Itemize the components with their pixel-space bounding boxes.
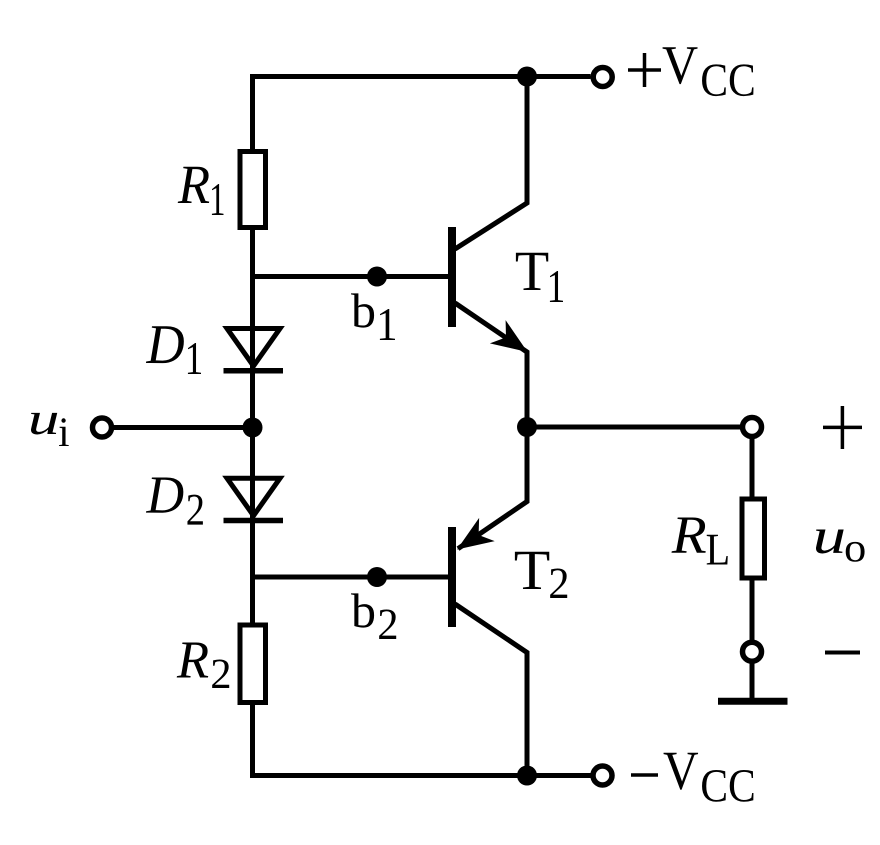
label ui i bbox=[59, 418, 69, 446]
wire: top rail +Vcc bbox=[250, 74, 591, 79]
label output minus sign bbox=[825, 651, 860, 655]
transistor T2 bbox=[448, 527, 456, 627]
label -Vcc V bbox=[664, 753, 698, 790]
label R2 R bbox=[177, 642, 209, 677]
resistor R2 bbox=[240, 625, 266, 703]
terminal: +Vcc bbox=[593, 68, 612, 87]
transistor T1 bbox=[448, 227, 456, 327]
node: b1 bbox=[367, 267, 387, 287]
label +Vcc CC bbox=[702, 64, 753, 96]
label T2 2 bbox=[550, 568, 567, 598]
label -Vcc CC bbox=[702, 770, 753, 802]
resistor R1 bbox=[240, 152, 266, 228]
terminal: output bottom bbox=[743, 642, 762, 661]
label T2 T bbox=[515, 552, 549, 589]
label D2 2 bbox=[187, 495, 202, 525]
label b1 1 bbox=[380, 309, 395, 340]
transistor T2 emitter arrow bbox=[449, 518, 494, 561]
label uo u bbox=[816, 530, 844, 554]
wire: output wire to terminal bbox=[527, 425, 740, 430]
label T1 1 bbox=[550, 271, 563, 302]
label uo o bbox=[846, 542, 865, 562]
wire: RL top lead bbox=[750, 439, 755, 499]
wire: T1 emitter bbox=[455, 303, 527, 427]
label RL L bbox=[707, 535, 728, 565]
wire: bottom rail -Vcc bbox=[250, 773, 591, 778]
diode D1 bbox=[224, 329, 284, 371]
terminal: output top bbox=[743, 418, 762, 437]
terminal: -Vcc bbox=[593, 766, 612, 785]
wire: T2 collector bbox=[455, 604, 527, 776]
wire: T2 emitter bbox=[458, 427, 527, 549]
label ui u bbox=[31, 413, 57, 435]
node: input junction bbox=[243, 418, 263, 438]
node: top rail junction bbox=[517, 67, 537, 87]
node: output junction bbox=[517, 417, 537, 437]
label RL R bbox=[671, 517, 705, 552]
terminal: input u_i bbox=[93, 418, 112, 437]
node: bottom rail junction bbox=[517, 766, 537, 786]
label R2 2 bbox=[212, 659, 229, 688]
label b2 2 bbox=[379, 609, 396, 639]
label D2 D bbox=[146, 477, 183, 512]
label R1 1 bbox=[212, 184, 224, 215]
wire: T1 collector bbox=[455, 77, 527, 250]
label T1 T bbox=[516, 253, 548, 290]
label +Vcc plus sign bbox=[628, 53, 661, 87]
wire: b1 base wire bbox=[253, 274, 449, 279]
label b2 b bbox=[351, 593, 374, 627]
wire: RL bottom lead bbox=[750, 578, 755, 640]
label -Vcc minus sign bbox=[631, 773, 658, 777]
wire: left vertical bus bbox=[250, 77, 255, 776]
wire: ground lead bbox=[750, 664, 755, 700]
wire: input wire from terminal bbox=[114, 425, 253, 430]
label output plus sign bbox=[823, 406, 862, 449]
ground bbox=[718, 698, 788, 705]
label +Vcc V bbox=[663, 47, 698, 84]
label D1 1 bbox=[188, 343, 201, 374]
resistor RL bbox=[742, 499, 765, 578]
label b1 b bbox=[351, 293, 374, 327]
label R1 R bbox=[178, 167, 210, 203]
transistor T1 emitter arrow bbox=[490, 320, 536, 363]
wire: b2 base wire bbox=[253, 575, 449, 580]
label D1 D bbox=[146, 326, 184, 363]
node: b2 bbox=[367, 567, 387, 587]
diode D2 bbox=[224, 478, 284, 520]
